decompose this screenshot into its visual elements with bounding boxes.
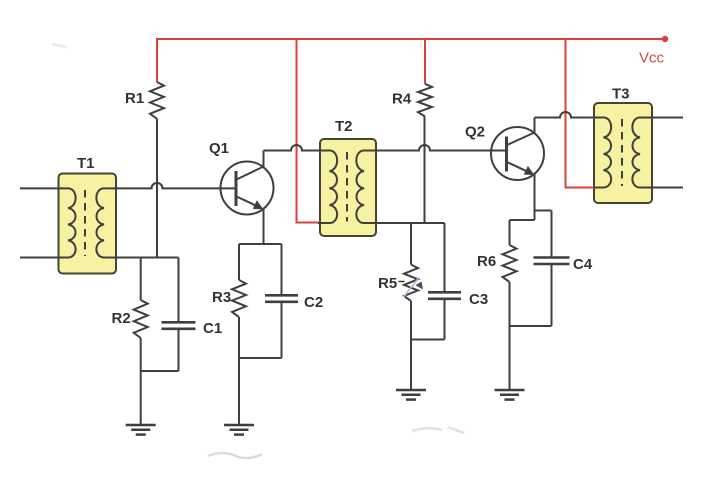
transformer T3 body (594, 103, 652, 203)
label C1 (203, 320, 222, 337)
svg-text:C2: C2 (304, 294, 323, 311)
T1 primary winding (68, 188, 76, 257)
label T2 (335, 118, 353, 135)
wire red drop to T3 primary bottom (566, 38, 597, 188)
resistor R3 (232, 280, 246, 317)
wire Q2 collector up (534, 118, 536, 134)
ground (R6/C4) (495, 390, 525, 400)
resistor R5 (404, 265, 418, 302)
transformer T2 body (320, 139, 376, 236)
ground (R3/C2) (224, 425, 254, 435)
svg-text:T2: T2 (335, 118, 353, 135)
wire red drop to R4 (424, 38, 426, 84)
label R6 (477, 253, 496, 270)
ground (R5/C3) (396, 390, 426, 400)
svg-text:Vcc: Vcc (639, 50, 665, 67)
wire R3/C2 top junction (239, 243, 282, 245)
R5 adjust arrow (blue) (404, 278, 424, 298)
wire R6/C4 bottom junction (510, 325, 552, 327)
svg-text:R5: R5 (378, 275, 397, 292)
T1 core dashed line (84, 190, 86, 256)
wire emitter node to C4 (535, 210, 552, 212)
wire R5/C3 bottom junction (411, 339, 445, 341)
wire C1 bottom lead (178, 329, 180, 371)
wire R2 bottom lead (140, 338, 142, 371)
resistor R2 (134, 300, 148, 338)
wire C4 bottom lead (551, 264, 553, 326)
capacitor C3 (428, 292, 461, 299)
Q1 emitter stroke with arrow (237, 197, 264, 210)
wire T3 primary bottom stub (594, 187, 605, 189)
Q2 base bar (505, 137, 508, 172)
wire to ground 4 (509, 326, 511, 390)
wire Q1 collector up (263, 151, 265, 168)
T1 secondary winding (96, 188, 104, 257)
wire to ground 1 (140, 371, 142, 425)
svg-text:R1: R1 (125, 90, 144, 107)
label R3 (212, 289, 231, 306)
label R4 (392, 91, 412, 108)
label T1 (77, 155, 95, 172)
wire T1 top-left pin (20, 187, 69, 189)
wire to ground 2 (238, 358, 240, 425)
T3 primary winding (604, 118, 612, 188)
wire Q2 collector to T3 primary top (hop over red drop) (535, 112, 605, 117)
capacitor C4 (534, 258, 570, 265)
capacitor C2 (265, 295, 298, 302)
net label Vcc (639, 50, 665, 67)
wire T1 bottom-left pin (20, 257, 69, 259)
svg-text:C3: C3 (469, 291, 488, 308)
wire T1 secondary top to Q1 base (hop over R1 drop) (103, 183, 236, 188)
Q1 base bar (235, 171, 238, 206)
wire R4 bottom to R5/C3 node (passes under hop) (424, 117, 426, 224)
svg-text:R6: R6 (477, 253, 496, 270)
wire red drop to T2 primary bottom (297, 38, 322, 223)
T3 secondary winding (632, 118, 640, 188)
wire T2 primary bottom stub (318, 222, 331, 224)
label R1 (125, 90, 144, 107)
wire T3 secondary top pin (639, 117, 683, 119)
wire R5 bottom lead (410, 301, 412, 340)
wire C3 top lead (444, 223, 446, 292)
wire R6 top lead (509, 220, 511, 245)
wire C3 bottom lead (444, 299, 446, 340)
wire emitter node to R6 (510, 219, 535, 221)
T2 secondary winding (356, 151, 364, 224)
wire C1 top lead (178, 258, 180, 323)
wire R5 top lead (410, 223, 412, 265)
transistor Q2 body (491, 127, 544, 180)
R5 label tie (399, 281, 405, 283)
svg-text:R2: R2 (112, 310, 131, 327)
label T3 (612, 86, 630, 103)
Q1 collector stroke (237, 167, 264, 180)
wire R3 bottom lead (238, 317, 240, 358)
label Q2 (465, 124, 485, 141)
label R5 (378, 275, 397, 292)
wire T2 secondary bottom to R5/C3 node (363, 222, 445, 224)
label C4 (573, 256, 593, 273)
Q2 collector stroke (507, 133, 535, 146)
T3 core dashed line (621, 119, 623, 186)
wire Q1 emitter down to R3/C2 node (263, 209, 265, 245)
svg-text:R4: R4 (392, 91, 412, 108)
resistor R6 (503, 245, 517, 282)
wire emitter node vertical (534, 211, 536, 221)
wire R1 bottom to bias node (156, 119, 158, 258)
wire C2 bottom lead (281, 302, 283, 358)
wire Q1 collector to T2 primary top (hop over red drop) (264, 145, 331, 150)
svg-text:Q2: Q2 (465, 124, 485, 141)
T2 primary winding (330, 151, 338, 224)
label Q1 (209, 140, 229, 157)
svg-text:C4: C4 (573, 256, 593, 273)
wire to ground 3 (410, 340, 412, 391)
transistor Q1 body (221, 162, 274, 215)
power rail Vcc (red) (157, 38, 665, 40)
T2 core dashed line (346, 152, 348, 222)
wire T1 secondary bottom to R2/C1 node (103, 257, 179, 259)
capacitor C1 (162, 322, 196, 329)
label C2 (304, 294, 323, 311)
label R2 (112, 310, 131, 327)
resistor R4 (418, 84, 432, 117)
wire R6 bottom lead (509, 282, 511, 326)
wire Q2 emitter down (534, 174, 536, 220)
svg-text:R3: R3 (212, 289, 231, 306)
wire C2 top lead (281, 244, 283, 295)
svg-text:C1: C1 (203, 320, 222, 337)
resistor R1 (150, 82, 164, 119)
wire T3 secondary bottom pin (639, 187, 683, 189)
Q2 emitter stroke with arrow (507, 162, 534, 175)
svg-text:T3: T3 (612, 86, 630, 103)
wire R2/C1 bottom junction (141, 370, 179, 372)
wire R3 top lead (238, 244, 240, 280)
wire C4 top lead (551, 211, 553, 258)
svg-text:Q1: Q1 (209, 140, 229, 157)
svg-text:T1: T1 (77, 155, 95, 172)
label C3 (469, 291, 488, 308)
wire T2 secondary top to Q2 base (hop over R4 drop) (363, 145, 507, 150)
wire red drop to R1 (156, 38, 158, 82)
wire R3/C2 bottom junction (239, 357, 282, 359)
ground (R2/C1) (126, 425, 156, 435)
wire R2 top lead (140, 258, 142, 301)
Vcc terminal dot (662, 36, 668, 42)
transformer T1 body (59, 174, 117, 274)
